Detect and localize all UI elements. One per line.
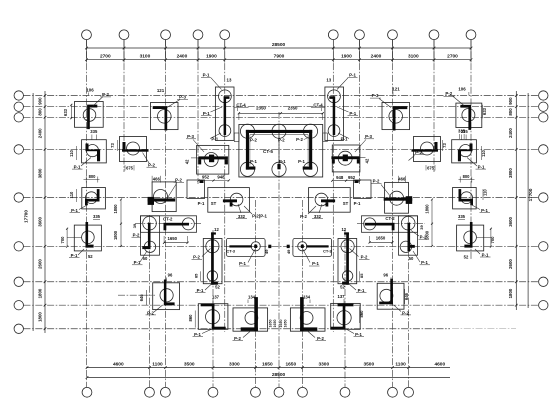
svg-text:900: 900 xyxy=(37,97,42,105)
svg-text:1800: 1800 xyxy=(113,230,118,240)
tall pile cap C x=225 xyxy=(215,87,234,140)
svg-text:P-1: P-1 xyxy=(354,201,361,206)
svg-text:1650: 1650 xyxy=(284,320,288,328)
svg-text:1800: 1800 xyxy=(425,230,430,240)
svg-text:800: 800 xyxy=(89,174,97,179)
vertical grid line x=149.5 xyxy=(149,215,151,387)
top axis bubble x=359.5 xyxy=(355,30,365,40)
label P-3 with leader right xyxy=(370,93,391,108)
top axis bubble x=333.3 xyxy=(328,30,338,40)
svg-text:121: 121 xyxy=(392,87,400,92)
left axis bubble y=117.3 xyxy=(14,113,23,122)
svg-text:110: 110 xyxy=(483,189,488,196)
top overall dimension 28500 xyxy=(87,42,472,48)
svg-text:2700: 2700 xyxy=(447,54,458,60)
vertical grid line x=86.5 xyxy=(86,40,88,388)
tall pile cap C-mirror x=333.5 xyxy=(325,87,344,140)
dim 110 vertical E xyxy=(69,146,77,160)
dim 73 vertical xyxy=(110,140,117,151)
svg-text:1800: 1800 xyxy=(37,288,42,298)
svg-text:800: 800 xyxy=(463,174,471,179)
dim 800 between E-mirror and Q-mirror xyxy=(459,174,475,183)
label 96 M xyxy=(167,272,173,281)
bottom axis bubble x=392.5 xyxy=(388,387,398,397)
svg-text:P-3: P-3 xyxy=(179,94,186,99)
svg-text:P-2: P-2 xyxy=(317,336,324,341)
dims 1800 1800 vertical right xyxy=(425,199,434,248)
central pile cap CT-5 xyxy=(239,124,323,177)
dim 675 under D-mirror xyxy=(426,165,435,171)
label P-1 mid right with leader xyxy=(337,107,358,116)
horizontal axis line y=328.75 (fades at right) xyxy=(24,328,517,330)
svg-text:800: 800 xyxy=(508,108,513,116)
horizontal axis line y=305.2 xyxy=(24,304,539,306)
vertical grid line x=471 xyxy=(470,40,472,261)
dim 110 vertical Q xyxy=(69,189,77,202)
svg-text:P-1: P-1 xyxy=(481,208,488,213)
right axis bubble y=281.75 xyxy=(539,277,548,286)
svg-text:P-1: P-1 xyxy=(197,288,204,293)
svg-text:1650: 1650 xyxy=(376,236,386,241)
svg-text:12: 12 xyxy=(214,227,219,232)
svg-text:1800: 1800 xyxy=(508,288,513,298)
label P-2 near I xyxy=(132,233,142,238)
svg-text:P-1: P-1 xyxy=(358,288,365,293)
svg-text:13: 13 xyxy=(227,78,232,83)
top axis bubble x=434 xyxy=(429,30,439,40)
left axis bubble y=305.2 xyxy=(14,301,23,310)
label 121 xyxy=(157,88,165,96)
bottom axis bubble x=345 xyxy=(340,387,350,397)
svg-text:P-1: P-1 xyxy=(279,159,286,164)
svg-text:73: 73 xyxy=(110,143,115,148)
label 137 O xyxy=(212,294,220,303)
left dimension chain 17700 xyxy=(24,91,47,333)
dim 952 948 under F xyxy=(197,175,230,182)
label P-1 K-mirror xyxy=(475,249,491,257)
label P-1 N-mirror xyxy=(349,284,367,294)
svg-text:P-1: P-1 xyxy=(421,260,428,265)
svg-text:P-1: P-1 xyxy=(478,165,485,170)
label P-3 with leader xyxy=(167,94,188,107)
svg-text:96: 96 xyxy=(383,272,388,277)
pile cap D xyxy=(120,137,149,162)
svg-text:948: 948 xyxy=(336,175,344,180)
CT-4 connector left xyxy=(234,133,239,142)
pile cap P-2 A-mirror xyxy=(456,103,482,130)
label P-3 F with leader xyxy=(186,134,204,152)
svg-text:1900: 1900 xyxy=(341,54,352,60)
vertical grid line x=345 xyxy=(344,230,346,387)
vertical grid line x=224.75 xyxy=(224,40,226,333)
right axis bubble y=246.3 xyxy=(539,242,548,251)
svg-text:96: 96 xyxy=(168,272,173,277)
label P-2 with leader xyxy=(93,92,112,107)
label P-1 mid with leader xyxy=(201,107,222,116)
svg-text:50: 50 xyxy=(409,256,414,261)
pile cap P-1 K xyxy=(74,222,101,251)
label CT-4 left xyxy=(235,103,249,111)
svg-text:42: 42 xyxy=(365,158,370,163)
svg-text:2350: 2350 xyxy=(288,106,298,111)
svg-text:P-2: P-2 xyxy=(250,138,257,143)
CT-5 inner labels xyxy=(250,137,309,164)
short axis segment y=295 xyxy=(118,294,155,296)
label P-1 under I xyxy=(132,251,147,265)
left axis bubble y=328.75 xyxy=(14,324,23,333)
bottom axis bubble x=213 xyxy=(208,387,218,397)
svg-text:7900: 7900 xyxy=(274,54,285,60)
svg-text:2350: 2350 xyxy=(256,106,266,111)
svg-text:17700: 17700 xyxy=(24,210,29,223)
pile cap P-1 K-mirror xyxy=(457,222,484,251)
svg-text:1650: 1650 xyxy=(262,361,273,367)
svg-text:466: 466 xyxy=(153,176,161,181)
bottom axis bubble x=87 xyxy=(82,387,92,397)
label P-1 CT-3 left xyxy=(239,250,255,267)
pile cap P-2 P-mirror xyxy=(290,297,325,331)
label P-1 low xyxy=(210,133,221,141)
label P-1 under I-mirror xyxy=(413,251,430,265)
dim 675 under D xyxy=(125,165,134,171)
svg-text:110: 110 xyxy=(481,149,486,156)
top axis bubble x=471 xyxy=(466,30,476,40)
svg-text:P-1: P-1 xyxy=(74,165,81,170)
tall pile cap N x=213 xyxy=(203,232,222,284)
label P-2 near D xyxy=(143,153,158,168)
svg-text:1100: 1100 xyxy=(152,361,163,367)
label P-1 under Q xyxy=(70,205,89,213)
top axis bubble x=392.5 xyxy=(388,30,398,40)
svg-text:3600: 3600 xyxy=(508,216,513,226)
svg-text:1900: 1900 xyxy=(206,54,217,60)
svg-text:P-1: P-1 xyxy=(198,201,205,206)
pile cap P-3 F xyxy=(191,145,229,174)
pile cap E xyxy=(82,140,107,163)
svg-text:4600: 4600 xyxy=(113,361,124,367)
right axis bubble y=95.5 xyxy=(539,91,548,100)
svg-text:1650: 1650 xyxy=(279,320,283,328)
dim 633 vertical xyxy=(63,104,72,119)
label P-2 M xyxy=(146,306,163,316)
svg-text:13: 13 xyxy=(326,78,331,83)
svg-text:466: 466 xyxy=(398,176,406,181)
bottom axis bubble x=302.5 xyxy=(298,387,308,397)
right axis bubble y=305.2 xyxy=(539,301,548,310)
svg-text:1800: 1800 xyxy=(425,204,430,214)
svg-text:3100: 3100 xyxy=(140,54,151,60)
labels ST P-1 near J-mirror xyxy=(343,201,361,206)
vertical grid line x=392.5 xyxy=(392,40,394,388)
pile cap P-2 P xyxy=(233,297,268,331)
svg-text:P-3: P-3 xyxy=(372,93,379,98)
svg-text:P-2: P-2 xyxy=(147,310,154,315)
svg-text:137: 137 xyxy=(338,294,346,299)
label P-1 O-mirror xyxy=(346,329,364,337)
svg-text:335: 335 xyxy=(461,129,469,134)
dim 73 vertical right xyxy=(442,140,447,151)
label P-2 with leader right xyxy=(444,91,465,105)
dim 335 under A xyxy=(90,129,98,139)
svg-text:P-3: P-3 xyxy=(187,134,194,139)
pile cap P-2 M xyxy=(153,280,180,310)
svg-text:3500: 3500 xyxy=(363,361,374,367)
svg-text:P-1: P-1 xyxy=(71,253,78,258)
svg-text:52: 52 xyxy=(464,254,469,259)
vertical grid line x=124 xyxy=(123,40,125,173)
dim 85 vertical N xyxy=(193,271,200,281)
label P-2 R xyxy=(168,178,184,197)
svg-text:ST: ST xyxy=(211,201,217,206)
dim 85 vertical N-mirror xyxy=(359,271,364,281)
svg-text:P-2: P-2 xyxy=(361,255,368,260)
right axis bubble y=197.5 xyxy=(539,193,548,202)
pile cap E-mirror xyxy=(452,140,477,163)
pile cap P-3 B-mirror xyxy=(382,103,410,131)
svg-text:12: 12 xyxy=(341,227,346,232)
label P-1 N xyxy=(195,284,212,294)
label P-2 N xyxy=(192,249,211,260)
svg-text:4600: 4600 xyxy=(434,361,445,367)
dim 2350 2350 above CT-5 xyxy=(238,106,324,120)
svg-text:P-1: P-1 xyxy=(71,208,78,213)
bottom axis bubble x=149.5 xyxy=(145,387,155,397)
labels P-2 332 under J-mirror xyxy=(300,204,323,219)
label P-1 E xyxy=(72,158,91,170)
vertical grid line x=279 xyxy=(278,112,280,387)
pile cap CT-2 left with vertical cluster xyxy=(141,216,197,255)
bottom axis bubble x=255.5 xyxy=(251,387,261,397)
svg-text:3300: 3300 xyxy=(318,361,329,367)
top axis bubble x=198 xyxy=(193,30,203,40)
svg-text:CT-3: CT-3 xyxy=(226,249,235,254)
label P-2 near D-mirror xyxy=(409,150,425,161)
svg-text:2700: 2700 xyxy=(100,54,111,60)
label 121 right xyxy=(392,87,400,96)
svg-text:P-1: P-1 xyxy=(194,332,201,337)
dim 110 vertical Q-mirror xyxy=(483,189,488,200)
vertical grid line x=408.6 xyxy=(408,215,410,387)
svg-text:860: 860 xyxy=(188,314,193,322)
left axis bubble y=281.75 xyxy=(14,277,23,286)
dim 948 952 under F-mirror xyxy=(331,175,361,182)
label 134 P xyxy=(248,294,256,303)
svg-text:85: 85 xyxy=(193,273,198,278)
svg-text:49: 49 xyxy=(264,249,269,254)
svg-text:42: 42 xyxy=(185,159,190,164)
svg-text:49: 49 xyxy=(286,249,291,254)
bottom axis bubble x=165.4 xyxy=(161,387,171,397)
pile cap Q-mirror xyxy=(453,188,477,209)
label P-3 F-mirror with leader xyxy=(355,134,374,152)
svg-text:3300: 3300 xyxy=(229,361,240,367)
svg-text:CT-2: CT-2 xyxy=(385,216,395,221)
svg-text:2600: 2600 xyxy=(508,259,513,269)
pile cap CT-3 left xyxy=(226,238,289,256)
top axis bubble x=86.5 xyxy=(82,30,92,40)
svg-text:106: 106 xyxy=(86,87,94,92)
dim 633 vertical right xyxy=(482,105,487,118)
bottom segment dimensions row xyxy=(86,361,450,369)
svg-text:952: 952 xyxy=(202,175,210,180)
label 106 right xyxy=(458,87,469,95)
top axis bubble x=124 xyxy=(119,30,129,40)
horizontal axis line y=197.5 xyxy=(24,197,539,199)
svg-text:P-1: P-1 xyxy=(312,261,319,266)
bottom axis bubble x=408.6 xyxy=(404,387,414,397)
svg-text:646: 646 xyxy=(139,294,144,302)
vertical grid line x=213 xyxy=(212,230,214,387)
dims 1650 1650 rotated near P-mirror xyxy=(279,320,288,328)
pile cap J-mirror xyxy=(309,180,371,212)
svg-text:P-1: P-1 xyxy=(349,111,356,116)
svg-text:P-1: P-1 xyxy=(355,332,362,337)
bottom axis bubble x=279 xyxy=(274,387,284,397)
dim 1650 under CT-2 left xyxy=(163,236,189,244)
label 137 O-mirror xyxy=(338,294,346,303)
label P-2 near I-mirror xyxy=(411,231,428,240)
left axis bubble y=149.4 xyxy=(14,145,23,154)
right axis bubble y=149.4 xyxy=(539,145,548,154)
svg-text:P-2: P-2 xyxy=(193,255,200,260)
svg-text:CT-3: CT-3 xyxy=(323,249,332,254)
svg-text:P-2: P-2 xyxy=(415,150,422,155)
svg-text:CT-4: CT-4 xyxy=(313,103,323,108)
dim 700 vertical K-mirror xyxy=(477,228,496,248)
svg-text:28500: 28500 xyxy=(272,42,286,48)
dim 646 vertical M xyxy=(139,290,147,305)
vertical grid line x=165.5 xyxy=(165,40,167,388)
pile cap P-1 O-mirror xyxy=(331,303,361,329)
pile cap CT-2 right with vertical cluster xyxy=(362,216,418,255)
label P-1 upper right with leader xyxy=(337,73,358,90)
label P-1 K xyxy=(69,249,84,258)
pile cap P-3 B xyxy=(151,103,179,131)
svg-text:2400: 2400 xyxy=(177,54,188,60)
svg-text:ST: ST xyxy=(343,201,349,206)
svg-text:P-1: P-1 xyxy=(482,252,489,257)
vertical grid line x=359.5 xyxy=(359,40,361,185)
left axis bubble y=106.7 xyxy=(14,102,23,111)
dim 1650 under CT-2 right xyxy=(369,236,394,244)
svg-text:121: 121 xyxy=(157,88,165,93)
svg-text:3500: 3500 xyxy=(184,361,195,367)
svg-text:P-2: P-2 xyxy=(133,233,140,238)
vertical grid line x=198 xyxy=(197,40,199,185)
svg-text:332: 332 xyxy=(238,214,246,219)
svg-text:P-2: P-2 xyxy=(373,179,380,184)
top axis bubble x=165.6 xyxy=(161,30,171,40)
dim 860 vertical O-mirror xyxy=(359,307,364,324)
label P-2 M-mirror xyxy=(394,305,412,316)
svg-text:2400: 2400 xyxy=(37,128,42,138)
pile cap P-2 R-mirror xyxy=(384,182,413,213)
svg-text:39: 39 xyxy=(132,223,137,228)
CT-4 connector right xyxy=(323,133,328,142)
svg-text:P-1: P-1 xyxy=(203,111,210,116)
label P-2 P-mirror xyxy=(308,332,326,342)
svg-text:952: 952 xyxy=(348,175,356,180)
svg-text:P-1: P-1 xyxy=(250,159,257,164)
svg-text:CT-4: CT-4 xyxy=(236,103,246,108)
svg-text:110: 110 xyxy=(69,149,74,156)
dim 466 above R-mirror xyxy=(398,176,406,183)
svg-text:39: 39 xyxy=(419,225,424,230)
label P-1 O xyxy=(193,329,213,337)
right axis bubble y=106.7 xyxy=(539,102,548,111)
svg-text:2600: 2600 xyxy=(37,259,42,269)
svg-text:P-2: P-2 xyxy=(278,138,285,143)
label 134 P-mirror xyxy=(303,294,311,303)
label P-2 N-mirror xyxy=(350,249,370,260)
svg-text:3800: 3800 xyxy=(37,168,42,178)
horizontal axis line y=246.3 xyxy=(24,245,539,247)
svg-text:28500: 28500 xyxy=(272,372,286,378)
svg-text:P-1: P-1 xyxy=(203,73,210,78)
CT-2 centreline left xyxy=(135,223,202,225)
label P-1 under Q-mirror xyxy=(471,205,490,213)
pile cap Q xyxy=(82,188,106,209)
svg-text:900: 900 xyxy=(508,97,513,105)
pile cap P-1 O xyxy=(198,304,228,330)
svg-text:1800: 1800 xyxy=(113,204,118,214)
svg-text:P-1: P-1 xyxy=(298,159,305,164)
right axis bubble y=117.3 xyxy=(539,113,548,122)
pile cap J xyxy=(187,180,249,212)
svg-text:P-1: P-1 xyxy=(134,260,141,265)
label P-1 low right xyxy=(338,133,349,141)
labels P-1 ST near J xyxy=(198,201,217,206)
horizontal axis line y=281.75 xyxy=(24,281,539,283)
horizontal axis line y=117.3 xyxy=(24,116,539,118)
dim 335 above E-mirror xyxy=(461,129,469,139)
svg-text:P-3: P-3 xyxy=(365,134,372,139)
left axis bubble y=246.3 xyxy=(14,242,23,251)
svg-text:2400: 2400 xyxy=(371,54,382,60)
label P-2 R-mirror xyxy=(371,179,391,197)
dim 335 above K-mirror xyxy=(458,214,466,220)
dim 800 between E and Q xyxy=(84,174,100,183)
horizontal axis line y=95.5 xyxy=(24,95,539,97)
svg-text:335: 335 xyxy=(458,214,466,219)
svg-text:P-1: P-1 xyxy=(239,261,246,266)
dim 700 vertical K xyxy=(60,228,82,248)
svg-text:CT-5: CT-5 xyxy=(263,149,273,154)
pile cap P-2 R xyxy=(148,182,177,212)
label P-1 E-mirror xyxy=(467,158,486,170)
svg-text:675: 675 xyxy=(126,165,134,170)
svg-text:700: 700 xyxy=(60,236,65,244)
svg-text:P-2(P-1: P-2(P-1 xyxy=(252,214,267,219)
vertical grid line x=255.5 xyxy=(255,200,257,387)
horizontal axis line y=149.4 xyxy=(24,148,539,150)
svg-text:134: 134 xyxy=(248,294,256,299)
svg-text:3800: 3800 xyxy=(508,168,513,178)
labels 332 and P-2(P-1 under J xyxy=(236,204,268,219)
horizontal axis line y=106.7 xyxy=(24,106,539,108)
label P-1 upper with leader xyxy=(201,73,222,90)
svg-text:3600: 3600 xyxy=(37,216,42,226)
svg-text:1800: 1800 xyxy=(37,312,42,322)
top segment dimensions row xyxy=(85,40,472,63)
svg-text:3100: 3100 xyxy=(408,54,419,60)
svg-text:P-2: P-2 xyxy=(300,214,307,219)
svg-text:1650: 1650 xyxy=(268,320,272,328)
svg-text:137: 137 xyxy=(212,294,220,299)
pile cap P-2 M-mirror xyxy=(377,279,404,309)
svg-text:1100: 1100 xyxy=(395,361,406,367)
label 106 xyxy=(86,87,94,95)
